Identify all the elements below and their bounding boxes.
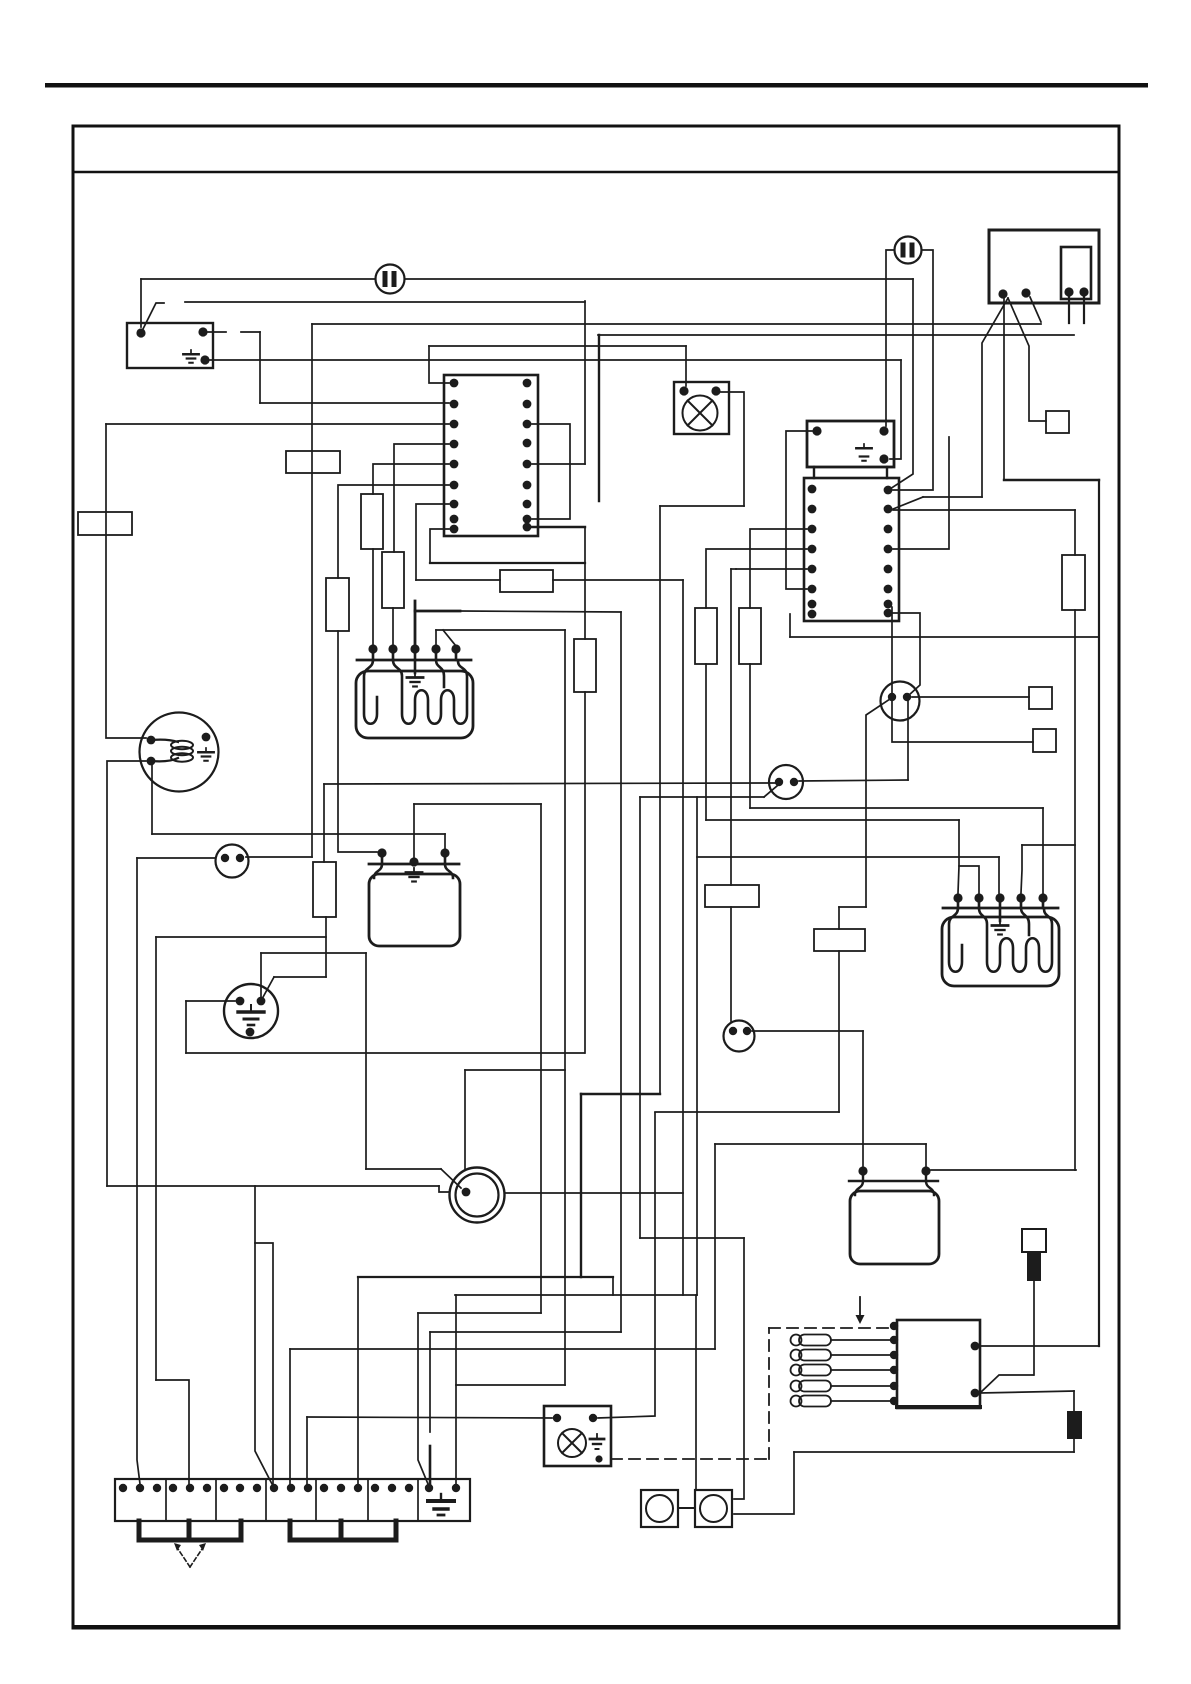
wire B2 dot1 diag xyxy=(764,786,777,797)
wire x979 from U3 xyxy=(982,298,1008,497)
small element E4 body xyxy=(849,1180,938,1182)
wire U1 pin7 to y580 xyxy=(416,504,449,580)
U2 right pins xyxy=(884,486,893,495)
oven lamp E1 box xyxy=(674,382,729,434)
wire S3 lower right xyxy=(734,1452,794,1514)
wire y820 xyxy=(706,819,959,821)
resistor R5 xyxy=(739,608,761,664)
door switch S2 xyxy=(641,1490,678,1527)
fan motor M1 xyxy=(140,713,219,792)
resistor R1 xyxy=(361,494,383,549)
wire x686 to lamp xyxy=(685,346,687,386)
wire y1001 to M2 xyxy=(186,1000,235,1002)
ground in S1 xyxy=(183,350,198,363)
wire y977 xyxy=(274,976,326,978)
wire y346 lamp net xyxy=(429,345,686,347)
wire K1 to U2 L6 xyxy=(786,431,812,589)
wire switch feed vertical xyxy=(140,279,142,327)
wire Q1 right to SQ1 xyxy=(912,696,1029,698)
wire U3 dot1 diag to SQ3 xyxy=(1008,298,1046,421)
wire U1 right pin9 xyxy=(532,526,585,528)
wire x926 to E4 dot2 xyxy=(925,1144,927,1166)
wire R2 to E2 dot2 xyxy=(392,608,394,644)
title separator xyxy=(73,171,1119,174)
wire y857 to E3 dot3 xyxy=(697,856,999,858)
wire x1074 through B6 xyxy=(1073,1391,1075,1452)
wire C2 left leg xyxy=(886,250,894,426)
wire x106 down to fan xyxy=(106,424,146,738)
ground in M1 xyxy=(198,748,213,761)
programmer U2 box xyxy=(804,478,899,621)
wire U1 pin5 to R1 xyxy=(373,464,449,494)
lamp E1 symbol xyxy=(683,396,718,431)
thermostat B1 xyxy=(216,845,249,878)
label box C xyxy=(705,885,759,907)
wire y834 to bake element xyxy=(152,833,445,835)
wire x585 through R3 xyxy=(584,527,586,1053)
oven light E6 box xyxy=(544,1406,611,1466)
K2 left terminals xyxy=(890,1322,898,1330)
K1 legs to U2 xyxy=(814,467,887,478)
small box SQ1 xyxy=(1029,687,1052,709)
wire P1 drop xyxy=(1033,1281,1035,1375)
wire x1043 down xyxy=(1042,808,1044,893)
wire x465 to M3 xyxy=(464,1070,466,1169)
U3 inner box xyxy=(1061,247,1091,299)
E3 ground xyxy=(999,908,1002,921)
wire U3 inner dots down xyxy=(1069,296,1084,323)
wire x901 to K1 xyxy=(890,360,901,459)
small box SQ2 xyxy=(1033,729,1056,752)
resistor R6 xyxy=(1062,555,1085,610)
U1 left pins xyxy=(450,379,459,388)
dashed enclosure around fuses xyxy=(611,1458,769,1460)
wire x439 to M3 xyxy=(439,1186,449,1192)
wire U2 L3 from R5r xyxy=(750,529,807,608)
wire into E6 top right xyxy=(598,1113,655,1418)
wire U2 L8 tail xyxy=(789,614,791,637)
wire bake mid net y804 xyxy=(414,803,541,805)
wire y1277 thick bus xyxy=(358,1276,613,1278)
wire x307 to cell4 right xyxy=(306,1417,308,1484)
wire x565 down xyxy=(564,630,566,1385)
link S2-S3 xyxy=(678,1507,695,1509)
label box B xyxy=(286,451,340,473)
suppressor capacitor C1 xyxy=(376,265,405,294)
wire x731 through label C to B3 xyxy=(730,569,732,1021)
wire U2 R2 diag xyxy=(893,497,923,509)
terminal block X1 xyxy=(115,1479,470,1521)
E6 terminals xyxy=(553,1414,561,1422)
wire jog to cell2 xyxy=(156,1380,189,1484)
wire switch arm net (y301) xyxy=(185,301,585,303)
wire y1385 xyxy=(456,1384,565,1386)
ground in M2 xyxy=(238,1005,264,1025)
lamp E6 symbol xyxy=(558,1429,586,1457)
wire x863 to E4 dot1 xyxy=(862,1031,864,1166)
wire y1053 xyxy=(186,1052,584,1054)
wire K2 R2 diag to P1 xyxy=(980,1375,1033,1393)
wire x456 to ground terminal 2 xyxy=(455,1295,457,1484)
wire x1099 long xyxy=(1098,480,1100,1346)
wire y1238 xyxy=(640,1237,744,1239)
wire Q1 diag bottom left xyxy=(866,699,890,907)
M1 winding coil xyxy=(151,740,178,742)
E3 element coil xyxy=(949,908,962,972)
label box A xyxy=(78,512,132,535)
wire x581 thick xyxy=(580,1094,582,1277)
wire y784 B2 net xyxy=(324,783,775,784)
wire x1022 to E3 dot4 xyxy=(1021,845,1022,893)
switch S1 contacts xyxy=(136,328,145,337)
wire E2 dot4 riser xyxy=(435,630,437,649)
wire E6 left net y1417 xyxy=(307,1417,552,1418)
wire step x273 xyxy=(255,1243,273,1484)
wire U1 R5 stub xyxy=(532,463,585,465)
wire U3 dot2 diag xyxy=(1030,297,1041,322)
wire U1 R3-R8 loop xyxy=(532,424,570,519)
wire x137 to terminal cell1 xyxy=(137,858,140,1484)
wire R7 bottom xyxy=(325,917,327,977)
top heating element E2 xyxy=(357,659,471,662)
wire diag to E2 dot5 xyxy=(443,630,456,646)
thermostat B3 xyxy=(724,1021,755,1052)
fuse B6 (black) xyxy=(1067,1411,1082,1439)
wire upper switch contact xyxy=(208,331,260,333)
resistor R3 xyxy=(574,639,596,692)
wire x414 to bake xyxy=(413,804,415,857)
wire y1094 thick xyxy=(581,1093,660,1095)
programmer U1 (timer) box xyxy=(444,375,538,536)
wire x156 down xyxy=(155,937,157,1380)
wire y403 to U1 pin2 xyxy=(260,402,449,404)
wire U2 R4 xyxy=(893,437,949,549)
wire R1 to E2 dot1 xyxy=(372,549,374,644)
dashed arrows xyxy=(178,1549,190,1567)
E3 element body xyxy=(942,917,1059,986)
wire y324 bus xyxy=(312,323,1041,325)
ground in X1 xyxy=(428,1494,454,1515)
transistor/sensor Q1 xyxy=(881,682,920,721)
wire y569 corner xyxy=(731,568,736,570)
wire x744 to S3 xyxy=(734,1238,744,1499)
E2 element body xyxy=(356,671,473,738)
wire y480 xyxy=(1004,479,1099,481)
ground in K1 xyxy=(856,444,871,461)
wire U2 L5 xyxy=(736,568,807,570)
wire x290 to cell4 mid xyxy=(289,1349,291,1484)
bake element E5 body xyxy=(369,863,459,866)
wire y907 xyxy=(839,906,866,908)
X1 bus links group A xyxy=(139,1521,241,1540)
wire x430 to ground terminal xyxy=(429,1332,431,1432)
wire y563 xyxy=(430,562,585,564)
door switch S1 box xyxy=(127,323,213,368)
E5 ground xyxy=(406,868,422,882)
wire Q1 bottom stub to SQ2 xyxy=(888,604,1033,742)
wire x418 to ground cell xyxy=(418,1313,428,1484)
wire B2 dot2 to Q1 xyxy=(799,780,908,781)
wire y1112 xyxy=(655,1111,839,1113)
wire x695 to S3 xyxy=(695,1295,697,1490)
wire y937 xyxy=(156,936,326,938)
wire R0 to bake dot1 xyxy=(338,631,377,852)
wire x1075 through R6 xyxy=(1074,510,1076,1170)
resistor R7 xyxy=(313,862,336,917)
wire fan lower down x152 xyxy=(151,763,153,834)
wire x541 long xyxy=(540,804,542,1313)
wire y1313 xyxy=(418,1312,541,1314)
U2 left pins xyxy=(808,485,817,494)
wire B1 right stub xyxy=(246,856,312,858)
wire y335 bus xyxy=(598,334,1074,336)
wire x186 M2 feed xyxy=(185,1001,187,1053)
thermostat B2 xyxy=(769,765,803,799)
wire diag to M3 dot xyxy=(441,1169,461,1188)
resistor R9 (horizontal) xyxy=(500,570,553,592)
suppressor capacitor C2 xyxy=(895,237,922,264)
K1 terminals xyxy=(812,426,821,435)
wire x683 down xyxy=(682,580,684,1295)
wire y611 thick xyxy=(415,610,460,613)
motor M2 xyxy=(224,984,278,1038)
outer border xyxy=(73,126,1119,1628)
wire x585 down xyxy=(584,301,586,464)
bottom border thick xyxy=(73,1625,1119,1629)
wire y1169 xyxy=(366,1168,441,1170)
relay module K2 box xyxy=(897,1320,980,1408)
relay K1 box xyxy=(807,421,894,467)
wire diag to M2 dot2 xyxy=(262,977,274,999)
E3 terminal stems xyxy=(958,898,1043,908)
wire y611 to x621 xyxy=(460,611,621,612)
X1 terminal dots xyxy=(119,1484,127,1492)
arrow into fuse area xyxy=(859,1297,861,1316)
wire x715 down xyxy=(714,1144,716,1349)
wire x324 to R7 xyxy=(323,784,325,862)
wire x445 to bake terminal xyxy=(444,834,446,848)
resistor R8 (horizontal) xyxy=(814,929,865,951)
fan motor M3 (double circle) xyxy=(450,1168,505,1223)
wire y424 to U1 pin3 xyxy=(106,423,449,425)
wire y953 xyxy=(261,952,366,954)
wire C2 right leg xyxy=(893,250,933,490)
wire L1 top distribution (y279) xyxy=(141,278,913,280)
resistor R4 xyxy=(695,608,717,664)
ground in E6 xyxy=(590,1434,604,1449)
door switch S3 xyxy=(695,1490,732,1527)
wire y1295 xyxy=(455,1294,697,1296)
K2 right terminals xyxy=(971,1342,980,1351)
wire x366 down xyxy=(365,953,367,1169)
U3 terminals xyxy=(998,289,1007,298)
wire x621 down xyxy=(620,612,622,1332)
resistor R2 xyxy=(382,552,404,608)
wire y497 xyxy=(923,496,982,498)
wire hook to E3 dot2 xyxy=(959,866,979,893)
wire lamp right leg xyxy=(721,392,744,506)
wire x959 to E3 dot1 xyxy=(958,820,959,893)
wire Q1 dot2 down xyxy=(907,698,909,780)
X1 bus links group B xyxy=(290,1521,396,1540)
switch S1 lever xyxy=(141,303,164,333)
wire to K2 R1 xyxy=(980,1345,1099,1347)
wire U2 R9 to Q1 xyxy=(893,613,920,695)
wire B3 right xyxy=(752,1030,863,1032)
wire y808 to E3 dot5 xyxy=(750,807,1043,809)
E2 element coil xyxy=(364,660,377,724)
wire y1349 xyxy=(290,1348,715,1350)
wire B1 left net xyxy=(137,857,215,859)
wire fan lower to x107 xyxy=(107,761,146,1186)
page top rule xyxy=(45,83,1148,88)
wire U1 pin6 to R0 xyxy=(338,485,449,578)
lamp E1 terminals xyxy=(679,386,688,395)
U1 right pins xyxy=(523,379,532,388)
wire x640 down xyxy=(639,797,641,1238)
resistor R0 xyxy=(326,578,349,631)
wire x999 down xyxy=(998,857,1000,893)
E2 terminal stems xyxy=(373,649,456,660)
wire y506 xyxy=(660,505,744,507)
wire y1391 to K2 R2 xyxy=(980,1391,1074,1393)
plug P1 (black) xyxy=(1022,1229,1046,1252)
wire U2 R2 right y510 xyxy=(893,509,1075,511)
wire y797 xyxy=(640,796,764,798)
E2 ground xyxy=(414,660,417,673)
wire y360 bus xyxy=(210,359,901,361)
wire M2 dot2 riser xyxy=(260,953,262,997)
selector switch block U3 (top right) xyxy=(989,230,1099,303)
wire R5r to y808 xyxy=(749,664,751,808)
wire M3 right xyxy=(505,1192,683,1194)
wire y637 xyxy=(790,636,1099,638)
wire U3 dot1 fan to x1004 xyxy=(1003,298,1005,480)
wire y630 xyxy=(436,629,565,631)
wire x255 branch xyxy=(255,1186,272,1484)
wire x358 to cell5 xyxy=(357,1277,359,1484)
wire x260 to y403 xyxy=(259,332,261,403)
wire x697 branch xyxy=(696,797,698,1295)
wire x598 jog xyxy=(598,335,600,501)
wire x660 long xyxy=(659,506,661,1094)
wire y1070 xyxy=(465,1069,565,1071)
small box SQ3 xyxy=(1046,411,1069,433)
wire x429 to pin1 xyxy=(429,346,449,383)
wire y1144 E4 right xyxy=(715,1143,926,1145)
wire step 613 xyxy=(612,1277,614,1295)
wire R4r to y820 xyxy=(705,664,707,820)
wire y1452 xyxy=(794,1451,1074,1453)
wire E4 right dot to x1075 xyxy=(931,1169,1076,1171)
fuse links F1-F5 xyxy=(791,1335,832,1346)
wire x312 down through label B xyxy=(311,324,313,857)
grill heating element E3 xyxy=(943,907,1058,910)
wire y1186 xyxy=(107,1185,439,1187)
wire U1 pin9 left net xyxy=(430,529,449,563)
wire U2 L4 from R4r xyxy=(706,549,807,608)
wire U1 pin4 to R2 xyxy=(394,444,449,552)
wire y1332 xyxy=(430,1331,621,1333)
wire y845 grill branch xyxy=(1022,844,1075,846)
wire x913 down to U2 xyxy=(890,279,913,489)
wire x839 through R8r xyxy=(838,907,840,1112)
wire y580 through R9 xyxy=(416,579,683,581)
wire E2 dot3 riser thick xyxy=(414,601,417,644)
